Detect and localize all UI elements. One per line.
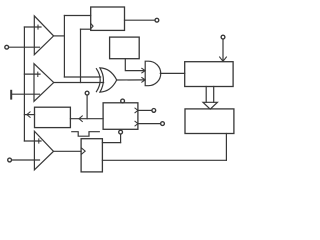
block U6 box <box>103 103 138 130</box>
node IN1 terminal circle <box>5 45 9 49</box>
op-amp U1 plus glyph <box>37 25 39 29</box>
wire block U3 to bus V1 <box>24 114 34 116</box>
wire block U6 output 2 <box>138 123 161 125</box>
wire block U9 bottom stem <box>225 134 227 161</box>
arrowhead into block U3 <box>79 116 82 122</box>
source bar symbol <box>10 91 12 99</box>
flip-flop U7 box <box>81 139 102 172</box>
wire op-amp U1 minus input <box>9 46 40 48</box>
wire feedback bus V1 vertical <box>23 27 25 141</box>
XOR gate G1 <box>96 68 116 92</box>
block U8 box <box>185 62 233 87</box>
wire flip-flop U4 clock input <box>81 28 91 30</box>
wire IN2 down to block U8 <box>222 39 224 61</box>
wire XOR input 2 from op-amp U2 <box>54 82 104 84</box>
arrowhead into AND top input <box>142 68 145 73</box>
node P1 circle on top of U6 <box>121 99 125 103</box>
arrowhead U6 out1 <box>135 108 138 113</box>
wire flip-flop U7 output 1 <box>102 142 120 144</box>
wire node V2 vertical <box>63 16 65 78</box>
wire block U6 to block U3 <box>70 118 103 120</box>
arrowhead U6 out2 <box>135 121 138 126</box>
wire op-amp U1 output <box>54 35 65 37</box>
block U9 box <box>185 109 234 134</box>
AND gate G2 <box>145 61 161 85</box>
arrowhead into AND bottom input <box>142 78 145 83</box>
op-amp U3 <box>34 131 53 170</box>
waveform glyph <box>72 132 100 137</box>
node OUT3 terminal circle <box>161 122 165 126</box>
op-amp U2 <box>34 64 54 102</box>
wire op-amp U3 output to U7 clock <box>54 150 82 152</box>
wire block U5 to AND gate input <box>125 59 144 71</box>
arrowhead at bus V1 <box>27 112 30 117</box>
wire op-amp U2 minus input <box>11 93 39 95</box>
op-amp U3 plus glyph <box>38 139 40 143</box>
wire flip-flop U4 D input <box>64 15 90 17</box>
wire XOR input 1 <box>64 76 100 78</box>
flip-flop U7 clock mark <box>81 148 85 155</box>
wire clock net vertical V3 <box>80 29 82 82</box>
wire from T1 down to box U6 wire <box>86 95 88 119</box>
wire op-amp U3 minus input <box>12 159 40 161</box>
wire P2 stem down <box>120 134 122 143</box>
flip-flop U4 clock mark <box>91 23 93 28</box>
op-amp U2 plus glyph <box>37 72 39 76</box>
hollow arrow U8 to U9 <box>203 87 217 110</box>
node P2 circle under U6 <box>119 130 123 134</box>
node IN2 terminal circle <box>221 35 225 39</box>
flip-flop U4 box <box>91 7 125 30</box>
wire AND output to block U8 <box>160 72 184 74</box>
block U3 box <box>35 107 71 127</box>
wire op-amp U1 plus input <box>24 26 41 28</box>
node T1 terminal circle <box>85 91 89 95</box>
wire block U6 output 1 <box>138 109 152 111</box>
op-amp U1 <box>34 16 53 55</box>
wire op-amp U2 plus input <box>24 73 40 75</box>
arrowhead into U8 top <box>220 57 227 61</box>
block U5 box <box>110 37 140 59</box>
wire XOR output to AND input <box>117 79 145 81</box>
wire return bottom long <box>102 159 226 161</box>
wire op-amp U3 plus input <box>24 140 41 142</box>
node IN3 terminal circle <box>8 158 12 162</box>
wire flip-flop U4 output <box>125 19 155 21</box>
node OUT2 terminal circle <box>152 109 156 113</box>
node OUT1 terminal circle <box>155 18 159 22</box>
